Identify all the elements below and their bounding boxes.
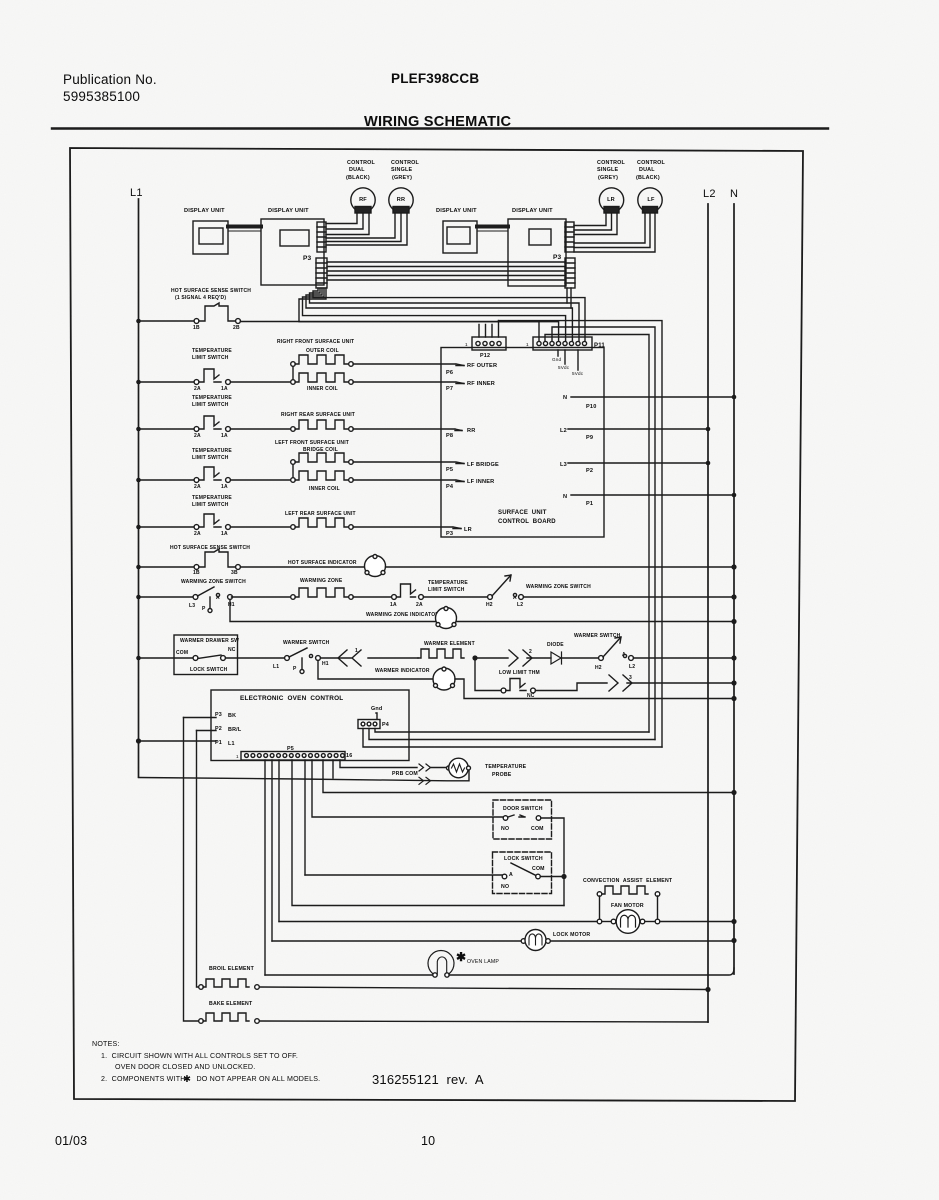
svg-text:LEFT REAR SURFACE UNIT: LEFT REAR SURFACE UNIT	[285, 511, 356, 517]
svg-text:P10: P10	[586, 404, 597, 410]
svg-text:(GREY): (GREY)	[598, 175, 618, 181]
svg-text:PROBE: PROBE	[492, 772, 512, 778]
svg-text:BAKE ELEMENT: BAKE ELEMENT	[209, 1001, 253, 1007]
svg-text:COM: COM	[176, 650, 188, 656]
svg-text:LF INNER: LF INNER	[467, 479, 494, 485]
svg-text:CONTROL BOARD: CONTROL BOARD	[498, 519, 556, 525]
svg-text:LOCK SWITCH: LOCK SWITCH	[504, 856, 543, 862]
svg-text:RF: RF	[359, 197, 367, 203]
svg-text:2A: 2A	[194, 531, 201, 537]
svg-text:N: N	[730, 188, 738, 200]
svg-text:DUAL: DUAL	[639, 167, 655, 173]
svg-text:P: P	[293, 666, 297, 672]
svg-text:DISPLAY UNIT: DISPLAY UNIT	[184, 208, 225, 214]
svg-text:A: A	[509, 872, 513, 878]
svg-text:LEFT FRONT SURFACE UNIT: LEFT FRONT SURFACE UNIT	[275, 440, 349, 446]
svg-text:TEMPERATURE: TEMPERATURE	[192, 495, 232, 501]
svg-text:DUAL: DUAL	[349, 167, 365, 173]
svg-text:WARMING ZONE SWITCH: WARMING ZONE SWITCH	[181, 579, 246, 585]
svg-text:LIMIT SWITCH: LIMIT SWITCH	[192, 455, 229, 461]
svg-text:P4: P4	[446, 484, 454, 490]
svg-text:5Vdc: 5Vdc	[572, 371, 584, 376]
svg-text:1A: 1A	[221, 531, 228, 537]
svg-text:Gnd: Gnd	[371, 706, 382, 712]
svg-text:NC: NC	[228, 647, 236, 653]
svg-text:N: N	[563, 395, 567, 401]
svg-text:TEMPERATURE: TEMPERATURE	[485, 764, 527, 770]
svg-text:PLEF398CCB: PLEF398CCB	[391, 71, 479, 86]
svg-text:INNER COIL: INNER COIL	[307, 386, 338, 392]
svg-text:1: 1	[526, 342, 529, 347]
svg-text:NO: NO	[501, 884, 509, 890]
svg-text:WARMING ZONE SWITCH: WARMING ZONE SWITCH	[526, 584, 591, 590]
svg-text:LF: LF	[647, 197, 655, 203]
svg-text:TEMPERATURE: TEMPERATURE	[192, 348, 232, 354]
svg-text:LIMIT SWITCH: LIMIT SWITCH	[192, 355, 229, 361]
svg-text:OVEN DOOR CLOSED AND UNLOCKED.: OVEN DOOR CLOSED AND UNLOCKED.	[115, 1063, 255, 1071]
svg-text:CONTROL: CONTROL	[347, 160, 376, 166]
svg-text:P: P	[202, 606, 206, 612]
svg-text:CONTROL: CONTROL	[391, 160, 420, 166]
svg-text:01/03: 01/03	[55, 1134, 87, 1148]
svg-text:OUTER COIL: OUTER COIL	[306, 348, 339, 354]
svg-text:WARMING ZONE: WARMING ZONE	[300, 578, 343, 584]
svg-text:BR/L: BR/L	[228, 727, 242, 733]
svg-text:L2: L2	[629, 664, 635, 670]
svg-text:L3: L3	[189, 603, 195, 609]
svg-text:16: 16	[346, 753, 352, 759]
svg-text:LR: LR	[607, 197, 615, 203]
svg-text:PRB COM: PRB COM	[392, 771, 418, 777]
svg-text:316255121 rev. A: 316255121 rev. A	[372, 1072, 484, 1087]
svg-text:LIMIT SWITCH: LIMIT SWITCH	[192, 502, 229, 508]
svg-text:SINGLE: SINGLE	[597, 167, 618, 173]
svg-text:P8: P8	[446, 433, 453, 439]
svg-text:WARMING ZONE INDICATOR: WARMING ZONE INDICATOR	[366, 612, 439, 618]
svg-text:WARMER SWITCH: WARMER SWITCH	[283, 640, 330, 646]
svg-text:P1: P1	[586, 501, 593, 507]
svg-text:TEMPERATURE: TEMPERATURE	[428, 580, 468, 586]
svg-text:LIMIT SWITCH: LIMIT SWITCH	[192, 402, 229, 408]
svg-text:2A: 2A	[194, 433, 201, 439]
svg-text:RF OUTER: RF OUTER	[467, 363, 497, 369]
svg-text:FAN MOTOR: FAN MOTOR	[611, 903, 644, 909]
svg-text:WARMER INDICATOR: WARMER INDICATOR	[375, 668, 430, 674]
svg-text:LR: LR	[464, 527, 472, 533]
svg-text:ELECTRONIC OVEN CONTROL: ELECTRONIC OVEN CONTROL	[240, 695, 343, 702]
svg-text:Publication No.: Publication No.	[63, 72, 157, 87]
svg-text:DISPLAY UNIT: DISPLAY UNIT	[268, 208, 309, 214]
svg-text:1A: 1A	[390, 602, 397, 608]
svg-text:(BLACK): (BLACK)	[346, 175, 370, 181]
svg-text:BK: BK	[228, 713, 236, 719]
svg-text:1A: 1A	[221, 484, 228, 490]
svg-text:DOOR SWITCH: DOOR SWITCH	[503, 806, 543, 812]
svg-text:CONVECTION ASSIST ELEMENT: CONVECTION ASSIST ELEMENT	[583, 878, 673, 884]
svg-text:2: 2	[529, 649, 532, 655]
svg-text:2A: 2A	[194, 386, 201, 392]
svg-text:2A: 2A	[194, 484, 201, 490]
svg-text:1B: 1B	[193, 570, 200, 576]
svg-text:P6: P6	[446, 370, 453, 376]
svg-text:WARMER SWITCH: WARMER SWITCH	[574, 633, 621, 639]
svg-text:DIODE: DIODE	[547, 642, 564, 648]
svg-text:1: 1	[236, 754, 239, 759]
svg-text:BROIL ELEMENT: BROIL ELEMENT	[209, 966, 255, 972]
svg-text:COM: COM	[532, 866, 545, 872]
svg-text:OVEN LAMP: OVEN LAMP	[467, 959, 499, 965]
svg-text:LOCK MOTOR: LOCK MOTOR	[553, 932, 590, 938]
svg-text:SURFACE UNIT: SURFACE UNIT	[498, 510, 547, 516]
svg-text:P12: P12	[480, 353, 490, 359]
svg-text:COM: COM	[531, 826, 544, 832]
svg-text:RIGHT FRONT SURFACE UNIT: RIGHT FRONT SURFACE UNIT	[277, 339, 354, 345]
svg-text:P5: P5	[446, 467, 453, 473]
svg-text:5995385100: 5995385100	[63, 89, 140, 104]
svg-text:N: N	[563, 494, 567, 500]
svg-text:2. COMPONENTS WITH DO NOT: 2. COMPONENTS WITH DO NOT APPEAR ON ALL …	[101, 1075, 320, 1083]
svg-text:2B: 2B	[233, 325, 240, 331]
svg-text:L1: L1	[130, 187, 143, 199]
svg-text:(BLACK): (BLACK)	[636, 175, 660, 181]
svg-text:1A: 1A	[221, 386, 228, 392]
svg-text:L1: L1	[273, 664, 279, 670]
svg-text:BRIDGE COIL: BRIDGE COIL	[303, 447, 338, 453]
svg-text:LF BRIDGE: LF BRIDGE	[467, 462, 499, 468]
svg-text:HOT SURFACE SENSE SWITCH: HOT SURFACE SENSE SWITCH	[171, 288, 251, 294]
svg-text:L2: L2	[703, 188, 716, 200]
svg-text:LOW LIMIT THM: LOW LIMIT THM	[499, 670, 540, 676]
svg-text:P3: P3	[446, 531, 453, 537]
svg-text:H1: H1	[322, 661, 329, 667]
svg-text:WARMER DRAWER SW: WARMER DRAWER SW	[180, 638, 239, 644]
svg-text:1. CIRCUIT SHOWN WITH ALL CON: 1. CIRCUIT SHOWN WITH ALL CONTROLS SET T…	[101, 1052, 298, 1060]
svg-text:1A: 1A	[221, 433, 228, 439]
svg-text:1B: 1B	[193, 325, 200, 331]
svg-text:10: 10	[421, 1134, 435, 1148]
svg-text:Gnd: Gnd	[552, 357, 562, 362]
svg-text:✱: ✱	[183, 1074, 191, 1085]
svg-text:H1: H1	[228, 602, 235, 608]
svg-text:NO: NO	[501, 826, 509, 832]
svg-text:WARMER ELEMENT: WARMER ELEMENT	[424, 641, 475, 647]
svg-text:L3: L3	[560, 462, 567, 468]
svg-text:P4: P4	[382, 722, 389, 728]
svg-text:P3: P3	[553, 254, 562, 261]
svg-text:TEMPERATURE: TEMPERATURE	[192, 448, 232, 454]
svg-text:P2: P2	[586, 468, 593, 474]
svg-text:1: 1	[465, 342, 468, 347]
svg-text:P9: P9	[586, 435, 593, 441]
svg-text:L2: L2	[517, 602, 523, 608]
svg-text:NOTES:: NOTES:	[92, 1040, 120, 1048]
svg-text:P3: P3	[303, 255, 312, 262]
svg-text:(1 SIGNAL 4 REQ'D): (1 SIGNAL 4 REQ'D)	[175, 295, 226, 301]
svg-text:CONTROL: CONTROL	[637, 160, 666, 166]
svg-text:(GREY): (GREY)	[392, 175, 412, 181]
svg-text:CONTROL: CONTROL	[597, 160, 626, 166]
svg-text:LOCK SWITCH: LOCK SWITCH	[190, 667, 228, 673]
svg-text:L2: L2	[560, 428, 567, 434]
svg-text:RF INNER: RF INNER	[467, 381, 495, 387]
svg-text:RIGHT REAR SURFACE UNIT: RIGHT REAR SURFACE UNIT	[281, 412, 355, 418]
svg-text:2A: 2A	[416, 602, 423, 608]
svg-text:✱: ✱	[456, 950, 466, 964]
svg-text:P7: P7	[446, 386, 453, 392]
svg-text:LIMIT SWITCH: LIMIT SWITCH	[428, 587, 465, 593]
svg-text:RR: RR	[467, 428, 475, 434]
svg-text:HOT SURFACE INDICATOR: HOT SURFACE INDICATOR	[288, 560, 357, 566]
svg-text:L1: L1	[228, 741, 235, 747]
svg-text:5Vdc: 5Vdc	[558, 365, 570, 370]
svg-text:INNER COIL: INNER COIL	[309, 486, 340, 492]
svg-text:H2: H2	[486, 602, 493, 608]
svg-text:HOT SURFACE SENSE SWITCH: HOT SURFACE SENSE SWITCH	[170, 545, 250, 551]
svg-text:SINGLE: SINGLE	[391, 167, 412, 173]
svg-text:DISPLAY UNIT: DISPLAY UNIT	[436, 208, 477, 214]
svg-text:TEMPERATURE: TEMPERATURE	[192, 395, 232, 401]
svg-text:DISPLAY UNIT: DISPLAY UNIT	[512, 208, 553, 214]
svg-text:3B: 3B	[231, 570, 238, 576]
svg-text:H2: H2	[595, 665, 602, 671]
svg-text:RR: RR	[397, 197, 405, 203]
